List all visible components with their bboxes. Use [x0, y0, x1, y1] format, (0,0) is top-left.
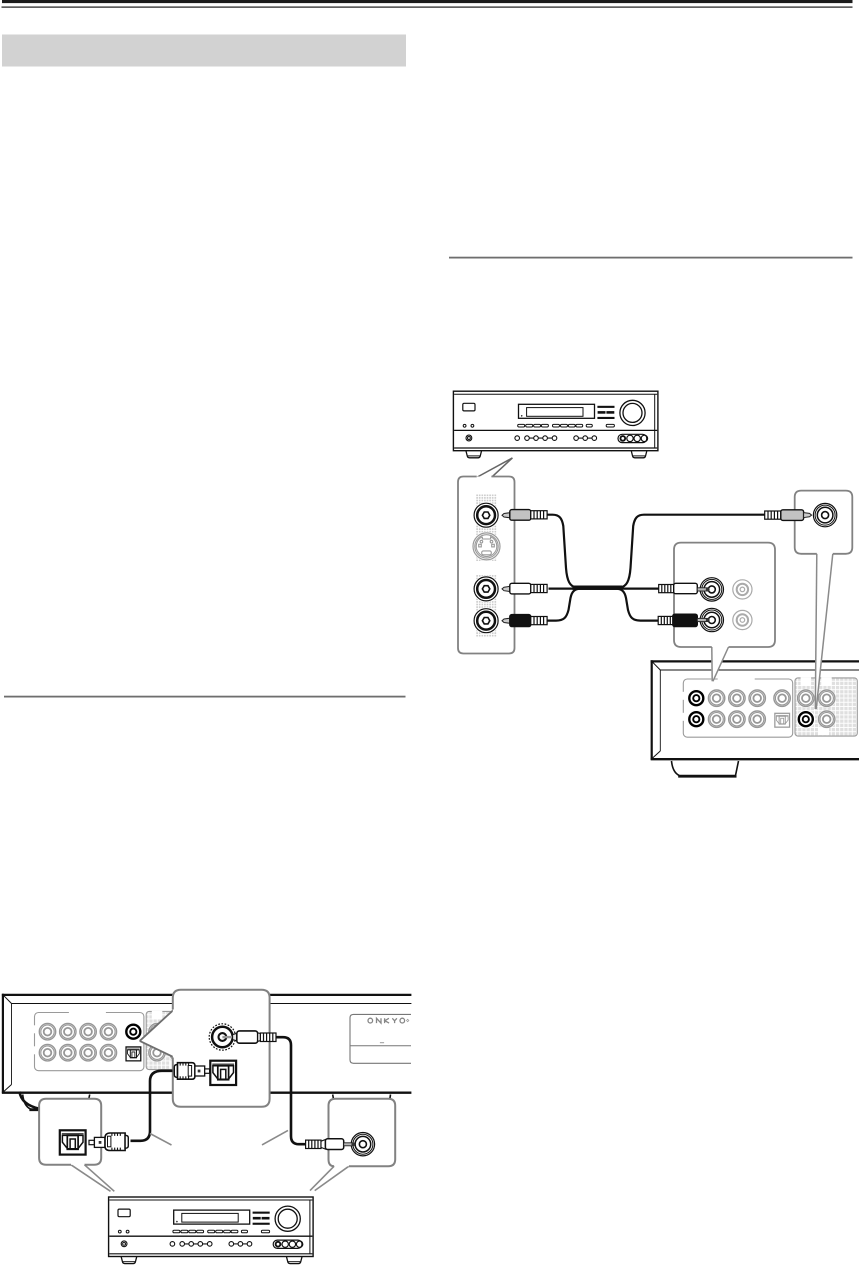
- coaxial cable down to receiver-side box: [276, 1037, 306, 1144]
- callout tail from TV video-in box down to DVD rear: [815, 553, 833, 709]
- toslink connector in box: [210, 1061, 236, 1085]
- video output jack (highlighted): [687, 689, 705, 707]
- callout tail from audio-in box down to DVD rear: [711, 646, 729, 682]
- toslink connector in left box: [60, 1130, 86, 1154]
- TV audio-in callout box: [674, 543, 775, 647]
- video cable: [547, 515, 765, 588]
- coaxial jack in box (dashed outer ring): [209, 1024, 235, 1050]
- video plug right end (gray, into TV): [765, 510, 812, 521]
- DVD player rear (full width): [2, 994, 412, 1110]
- receiver audio L input jack: [474, 577, 498, 601]
- s-video jack: [473, 533, 500, 560]
- cables: [547, 515, 765, 621]
- optical plug in box (points right): [131, 1063, 210, 1141]
- audio R plug (black, into receiver panel): [502, 615, 547, 627]
- tail from left box to receiver: [71, 1164, 115, 1191]
- coaxial plug into box jack: [222, 1031, 276, 1043]
- receiver (top right): [453, 391, 658, 458]
- receiver AV-IN callout panel: [458, 477, 515, 654]
- top rule thin: [2, 7, 853, 8]
- video plug (gray, into receiver panel): [502, 510, 547, 521]
- receiver video input jack: [474, 503, 498, 527]
- audio L plug (white, into receiver panel): [502, 583, 547, 594]
- audio L output jack (highlighted): [687, 710, 705, 728]
- optical plug (points left): [89, 1133, 128, 1151]
- middle box leader lines to receiver: [150, 1134, 172, 1146]
- left column divider: [4, 696, 406, 698]
- tail from right box to receiver: [310, 1165, 350, 1191]
- receiver coaxial digital input jack: [351, 1133, 374, 1156]
- TV video input jack: [813, 503, 836, 526]
- callout tail from receiver to AV IN panel: [477, 458, 513, 479]
- section header gray bar: [2, 35, 406, 67]
- coaxial plug into right box: [306, 1139, 355, 1150]
- TV audio R input jack: [700, 608, 723, 631]
- audio R output jack (highlighted): [797, 710, 815, 728]
- right column divider: [449, 257, 853, 259]
- right foot of full rear view: [333, 1095, 391, 1109]
- ONKYO name plate: [350, 1014, 411, 1063]
- optical-in callout box (left): [39, 1099, 101, 1165]
- unused jack bottom: [733, 610, 752, 629]
- audio L plug right end (white, into TV): [659, 583, 710, 593]
- DVD player rear (right column, clipped at page edge): [651, 660, 859, 776]
- unused jack top: [733, 580, 752, 599]
- callout V-tail of digital-out box pointing at jacks: [140, 1009, 175, 1058]
- audio cable stub at rear left: [20, 1092, 40, 1109]
- receiver (bottom): [109, 1197, 314, 1264]
- top rule thick: [2, 0, 853, 3]
- TV video-in callout box (top right): [795, 491, 853, 554]
- halftone strips: [476, 494, 497, 561]
- bold overlay: coaxial digital out jack: [124, 1022, 142, 1040]
- audio L cable: [549, 587, 659, 589]
- cable bundle: [573, 586, 623, 590]
- bold overlay: optical digital out: [126, 1047, 141, 1061]
- coaxial-in callout box (right): [329, 1099, 396, 1166]
- digital-out callout box (middle): [173, 990, 270, 1107]
- audio R plug right end (black, into TV): [658, 614, 709, 626]
- receiver audio R input jack: [474, 609, 498, 633]
- TV audio L input jack: [700, 578, 723, 601]
- audio R cable: [547, 589, 659, 621]
